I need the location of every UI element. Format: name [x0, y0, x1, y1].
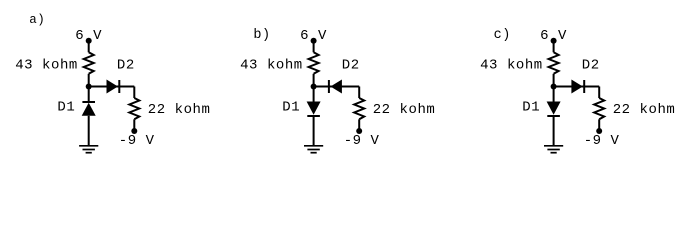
- svg-text:D2: D2: [117, 58, 135, 74]
- svg-text:6 V: 6 V: [540, 28, 567, 44]
- svg-text:-9 V: -9 V: [584, 133, 620, 149]
- svg-text:D1: D1: [522, 100, 540, 116]
- svg-text:D1: D1: [282, 100, 300, 116]
- svg-text:b): b): [253, 28, 270, 43]
- svg-text:-9 V: -9 V: [344, 133, 380, 149]
- svg-text:c): c): [494, 28, 511, 43]
- svg-text:43 kohm: 43 kohm: [480, 58, 543, 74]
- svg-text:a): a): [29, 13, 45, 27]
- svg-text:-9 V: -9 V: [119, 133, 155, 149]
- svg-text:22 kohm: 22 kohm: [613, 102, 676, 118]
- svg-text:6 V: 6 V: [75, 28, 102, 44]
- svg-text:6 V: 6 V: [300, 28, 327, 44]
- svg-text:43 kohm: 43 kohm: [15, 58, 78, 74]
- svg-text:D1: D1: [57, 100, 75, 116]
- svg-text:D2: D2: [342, 58, 360, 74]
- svg-text:D2: D2: [582, 58, 600, 74]
- svg-text:22 kohm: 22 kohm: [148, 102, 211, 118]
- svg-text:43 kohm: 43 kohm: [240, 58, 303, 74]
- svg-text:22 kohm: 22 kohm: [373, 102, 436, 118]
